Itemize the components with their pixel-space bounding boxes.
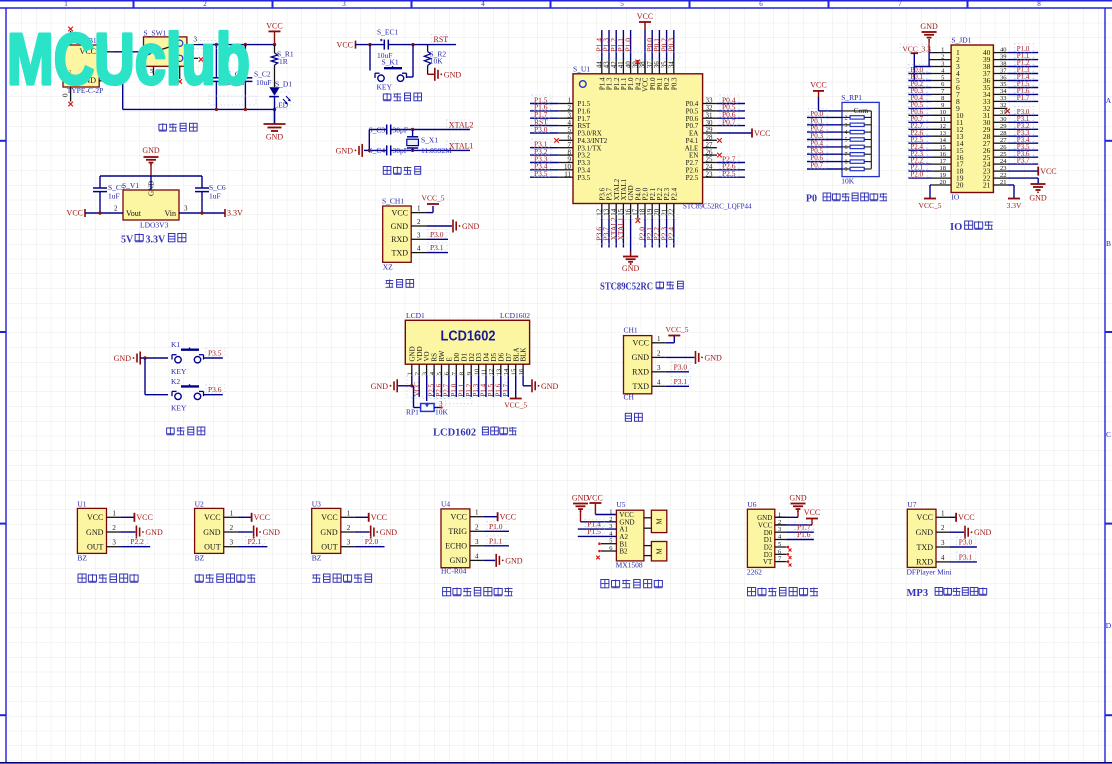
svg-text:OUT: OUT [87, 543, 104, 552]
svg-text:4: 4 [417, 245, 421, 253]
svg-text:TRIG: TRIG [448, 527, 467, 536]
svg-text:P3.0: P3.0 [430, 230, 444, 239]
svg-text:VCC: VCC [321, 513, 337, 522]
svg-text:VCC: VCC [136, 513, 152, 522]
svg-text:7: 7 [898, 0, 902, 8]
svg-text:VCC: VCC [266, 21, 282, 30]
svg-text:LDO3V3: LDO3V3 [140, 221, 169, 230]
svg-text:VCC: VCC [500, 513, 516, 522]
svg-text:P2.2: P2.2 [130, 537, 144, 546]
svg-text:STC89C52RC: STC89C52RC [600, 282, 653, 293]
svg-text:P3.5: P3.5 [208, 349, 222, 358]
svg-text:9: 9 [845, 167, 848, 173]
svg-text:TXD: TXD [917, 543, 934, 552]
svg-text:BZ: BZ [77, 554, 87, 563]
svg-text:3: 3 [475, 538, 479, 546]
svg-text:2: 2 [114, 205, 118, 213]
svg-text:2: 2 [112, 524, 116, 532]
svg-text:3: 3 [417, 231, 421, 239]
svg-text:Com: Com [854, 106, 869, 115]
svg-text:RST: RST [434, 35, 449, 44]
svg-text:P1.0: P1.0 [623, 38, 632, 52]
svg-text:B2: B2 [619, 548, 628, 556]
svg-text:LCD1: LCD1 [406, 311, 425, 320]
svg-text:U7: U7 [907, 500, 916, 509]
svg-text:S_JD1: S_JD1 [951, 36, 971, 45]
svg-text:M: M [656, 518, 664, 525]
svg-text:GND: GND [114, 354, 132, 363]
svg-text:VCC_5: VCC_5 [919, 201, 942, 210]
svg-text:S_EC1: S_EC1 [377, 28, 399, 37]
svg-text:2: 2 [657, 349, 661, 357]
svg-text:P2.5: P2.5 [686, 174, 699, 182]
svg-text:GND: GND [266, 133, 284, 142]
svg-text:VCC: VCC [804, 508, 820, 517]
svg-text:CH1: CH1 [624, 326, 638, 335]
svg-text:30pF: 30pF [393, 146, 408, 155]
svg-text:GND: GND [86, 528, 104, 537]
svg-text:1: 1 [941, 509, 945, 517]
svg-text:VCC: VCC [67, 209, 83, 218]
svg-text:VCC_3.3: VCC_3.3 [902, 45, 931, 54]
svg-text:6: 6 [759, 0, 763, 8]
svg-text:P3.0: P3.0 [674, 362, 688, 371]
svg-text:10K: 10K [841, 177, 855, 186]
svg-text:2: 2 [941, 524, 945, 532]
svg-text:LED: LED [274, 101, 289, 110]
svg-text:P1.0: P1.0 [489, 522, 503, 531]
svg-text:STC89C52RC_LQFP44: STC89C52RC_LQFP44 [683, 203, 752, 211]
svg-text:RXD: RXD [632, 368, 649, 377]
svg-text:P3.1: P3.1 [959, 552, 973, 561]
svg-text:S_C2: S_C2 [254, 70, 271, 79]
svg-text:U3: U3 [312, 500, 321, 509]
svg-text:9: 9 [466, 372, 473, 375]
svg-text:1: 1 [347, 509, 351, 517]
svg-text:P0.7: P0.7 [722, 117, 736, 126]
svg-text:M: M [656, 547, 664, 554]
svg-text:K1: K1 [171, 340, 180, 349]
svg-text:3: 3 [342, 0, 346, 8]
svg-text:TXD: TXD [392, 248, 409, 257]
svg-text:MX1508: MX1508 [616, 561, 643, 570]
svg-text:2: 2 [230, 524, 234, 532]
svg-text:GND: GND [622, 264, 640, 273]
svg-text:RP1: RP1 [406, 408, 419, 417]
svg-text:7: 7 [845, 152, 848, 158]
svg-text:VCC: VCC [451, 513, 467, 522]
svg-text:A: A [1106, 96, 1112, 105]
svg-text:2: 2 [203, 0, 207, 8]
svg-text:P3.7: P3.7 [1017, 157, 1030, 165]
svg-text:P2.5: P2.5 [722, 169, 736, 178]
svg-text:2: 2 [417, 218, 421, 226]
svg-text:HC-R04: HC-R04 [441, 567, 467, 576]
svg-text:Vin: Vin [164, 209, 176, 218]
svg-text:10K: 10K [430, 57, 444, 66]
svg-text:S_U1: S_U1 [573, 65, 590, 74]
svg-text:5: 5 [620, 0, 624, 8]
svg-text:GND: GND [336, 146, 354, 155]
svg-text:11: 11 [481, 369, 488, 375]
svg-text:5: 5 [436, 372, 443, 375]
svg-text:VCC: VCC [204, 513, 220, 522]
svg-text:P0.7: P0.7 [810, 162, 823, 170]
svg-text:U1: U1 [77, 500, 86, 509]
svg-text:GND: GND [145, 528, 163, 537]
svg-text:2262: 2262 [747, 568, 762, 577]
svg-text:XZ: XZ [383, 263, 393, 272]
svg-text:KEY: KEY [171, 404, 187, 413]
svg-text:3.3V: 3.3V [227, 209, 243, 218]
svg-text:VCC: VCC [337, 40, 353, 49]
svg-text:P3.5: P3.5 [578, 174, 591, 182]
svg-text:3: 3 [112, 539, 116, 547]
svg-text:10K: 10K [435, 408, 449, 417]
svg-text:8: 8 [845, 160, 848, 166]
svg-text:8: 8 [458, 372, 465, 375]
svg-text:U4: U4 [441, 500, 450, 509]
svg-text:VCC: VCC [633, 339, 649, 348]
svg-text:MP3: MP3 [907, 588, 929, 599]
svg-text:VT: VT [763, 558, 773, 566]
svg-text:1R: 1R [279, 57, 288, 66]
svg-text:P1.7: P1.7 [502, 383, 510, 396]
svg-text:Vout: Vout [126, 209, 142, 218]
svg-text:GND: GND [705, 353, 723, 362]
svg-text:DFPlayer Mini: DFPlayer Mini [907, 568, 952, 577]
svg-text:OUT: OUT [321, 543, 338, 552]
svg-text:S_V1: S_V1 [122, 181, 139, 190]
svg-text:P1.5: P1.5 [587, 527, 601, 536]
svg-text:P1.1: P1.1 [489, 536, 503, 545]
svg-text:P0: P0 [806, 194, 817, 205]
svg-text:S_C3: S_C3 [369, 125, 386, 134]
svg-text:KEY: KEY [377, 83, 393, 92]
svg-text:10: 10 [473, 369, 480, 376]
svg-text:LCD1602: LCD1602 [433, 428, 476, 439]
svg-text:3: 3 [184, 205, 188, 213]
svg-text:VCC: VCC [637, 12, 653, 21]
svg-text:GND: GND [505, 556, 523, 565]
svg-text:16: 16 [518, 368, 525, 375]
svg-text:S_RP1: S_RP1 [841, 93, 862, 102]
svg-text:6: 6 [845, 145, 848, 151]
svg-text:BZ: BZ [312, 554, 322, 563]
svg-text:2: 2 [475, 523, 479, 531]
svg-text:BLK: BLK [520, 348, 528, 362]
svg-text:2: 2 [609, 516, 612, 523]
svg-text:8: 8 [1037, 0, 1041, 8]
svg-text:VCC: VCC [810, 81, 826, 90]
svg-text:GND: GND [444, 70, 462, 79]
svg-text:3: 3 [347, 539, 351, 547]
svg-text:S_C4: S_C4 [369, 146, 386, 155]
svg-text:VCC_5: VCC_5 [666, 325, 689, 334]
svg-text:GND: GND [142, 146, 160, 155]
svg-text:KEY: KEY [171, 367, 187, 376]
svg-text:15: 15 [510, 369, 517, 376]
svg-text:21: 21 [983, 181, 991, 190]
svg-text:ECHO: ECHO [445, 542, 467, 551]
svg-text:VCC: VCC [1040, 167, 1056, 176]
svg-text:12: 12 [488, 369, 495, 376]
svg-text:U5: U5 [616, 500, 625, 509]
svg-text:K2: K2 [171, 377, 180, 386]
svg-text:GND: GND [450, 556, 468, 565]
svg-text:4: 4 [941, 554, 945, 562]
svg-text:S_X1: S_X1 [421, 136, 438, 145]
svg-text:VCC: VCC [87, 513, 103, 522]
svg-text:1: 1 [417, 205, 421, 213]
svg-text:5: 5 [845, 138, 848, 144]
svg-text:U6: U6 [747, 500, 756, 509]
svg-text:CH: CH [624, 393, 635, 402]
svg-text:P2.0: P2.0 [365, 537, 379, 546]
svg-text:11.0592M: 11.0592M [421, 146, 452, 155]
svg-text:5V: 5V [121, 235, 134, 246]
svg-text:S_K1: S_K1 [382, 57, 399, 66]
svg-text:B: B [1106, 239, 1111, 248]
svg-text:VCC: VCC [254, 513, 270, 522]
svg-text:MCUclub: MCUclub [7, 20, 250, 100]
svg-text:1: 1 [112, 509, 116, 517]
svg-text:1: 1 [657, 335, 661, 343]
svg-text:3: 3 [421, 372, 428, 375]
svg-text:LCD1602: LCD1602 [441, 329, 496, 345]
svg-text:GND: GND [632, 353, 650, 362]
svg-text:3: 3 [845, 123, 848, 129]
svg-text:P3.6: P3.6 [208, 385, 222, 394]
svg-text:VCC_5: VCC_5 [504, 401, 527, 410]
svg-text:13: 13 [496, 369, 503, 376]
svg-text:VCC: VCC [392, 208, 408, 217]
svg-text:OUT: OUT [204, 543, 221, 552]
svg-text:VCC: VCC [958, 513, 974, 522]
svg-text:14: 14 [503, 368, 510, 375]
svg-text:P3.0: P3.0 [959, 538, 973, 547]
svg-text:2: 2 [845, 115, 848, 121]
svg-text:D: D [1106, 621, 1112, 630]
svg-text:4: 4 [657, 378, 661, 386]
svg-text:S_CH1: S_CH1 [382, 197, 404, 206]
svg-text:P2.1: P2.1 [248, 537, 262, 546]
svg-text:P0.3: P0.3 [667, 38, 676, 52]
svg-text:10uF: 10uF [256, 78, 271, 87]
svg-text:VCC: VCC [371, 513, 387, 522]
svg-text:3.3V: 3.3V [1007, 201, 1022, 210]
svg-text:GND: GND [916, 528, 934, 537]
svg-text:IO: IO [950, 222, 962, 233]
svg-text:GND: GND [380, 528, 398, 537]
svg-text:S_D1: S_D1 [275, 80, 292, 89]
svg-text:GND: GND [263, 528, 281, 537]
svg-text:1: 1 [475, 509, 479, 517]
svg-text:2: 2 [347, 524, 351, 532]
svg-text:P1.6: P1.6 [797, 530, 811, 539]
svg-text:3: 3 [657, 364, 661, 372]
svg-text:XTAL2: XTAL2 [449, 120, 474, 129]
svg-text:P2.0: P2.0 [910, 171, 923, 179]
svg-text:GND: GND [391, 222, 409, 231]
svg-text:P2.4: P2.4 [670, 187, 678, 200]
svg-text:P3.1: P3.1 [430, 243, 444, 252]
svg-text:GND: GND [203, 528, 221, 537]
svg-text:U2: U2 [195, 500, 204, 509]
svg-text:30pF: 30pF [393, 125, 408, 134]
svg-text:1: 1 [230, 509, 234, 517]
svg-text:VCC: VCC [917, 513, 933, 522]
svg-text:1: 1 [64, 0, 68, 8]
svg-text:RXD: RXD [916, 558, 933, 567]
svg-text:GND: GND [371, 382, 389, 391]
svg-text:GND: GND [462, 222, 480, 231]
svg-text:1: 1 [609, 509, 612, 516]
svg-text:2: 2 [414, 372, 421, 375]
svg-text:IO: IO [951, 193, 959, 202]
svg-text:P0.3: P0.3 [670, 77, 678, 90]
svg-text:RXD: RXD [391, 235, 408, 244]
svg-text:GND: GND [789, 494, 807, 503]
svg-text:1uF: 1uF [108, 192, 120, 201]
svg-text:GND: GND [920, 22, 938, 31]
svg-text:P3.0: P3.0 [534, 125, 548, 134]
svg-text:20: 20 [956, 181, 964, 190]
svg-text:GND: GND [541, 382, 559, 391]
svg-text:4: 4 [475, 552, 479, 560]
svg-text:3.3V: 3.3V [146, 235, 167, 246]
svg-text:3: 3 [230, 539, 234, 547]
svg-text:4: 4 [845, 130, 848, 136]
svg-text:3: 3 [941, 539, 945, 547]
svg-text:GND: GND [974, 528, 992, 537]
svg-text:P3.5: P3.5 [534, 169, 548, 178]
svg-text:P1.7: P1.7 [1017, 94, 1030, 102]
svg-text:GND: GND [320, 528, 338, 537]
svg-text:1: 1 [407, 372, 414, 375]
svg-text:BZ: BZ [195, 554, 205, 563]
svg-text:P3.1: P3.1 [674, 377, 688, 386]
svg-text:XTAL1: XTAL1 [449, 141, 474, 150]
svg-text:C: C [1106, 430, 1111, 439]
svg-text:VCC: VCC [586, 494, 602, 503]
svg-text:4: 4 [481, 0, 485, 8]
svg-text:1uF: 1uF [209, 192, 221, 201]
svg-text:TXD: TXD [633, 382, 650, 391]
svg-text:VCC: VCC [754, 129, 770, 138]
svg-text:XTAL1: XTAL1 [616, 217, 625, 240]
svg-text:VCC_5: VCC_5 [422, 194, 445, 203]
svg-text:LCD1602: LCD1602 [500, 311, 530, 320]
svg-text:GND: GND [1029, 194, 1047, 203]
